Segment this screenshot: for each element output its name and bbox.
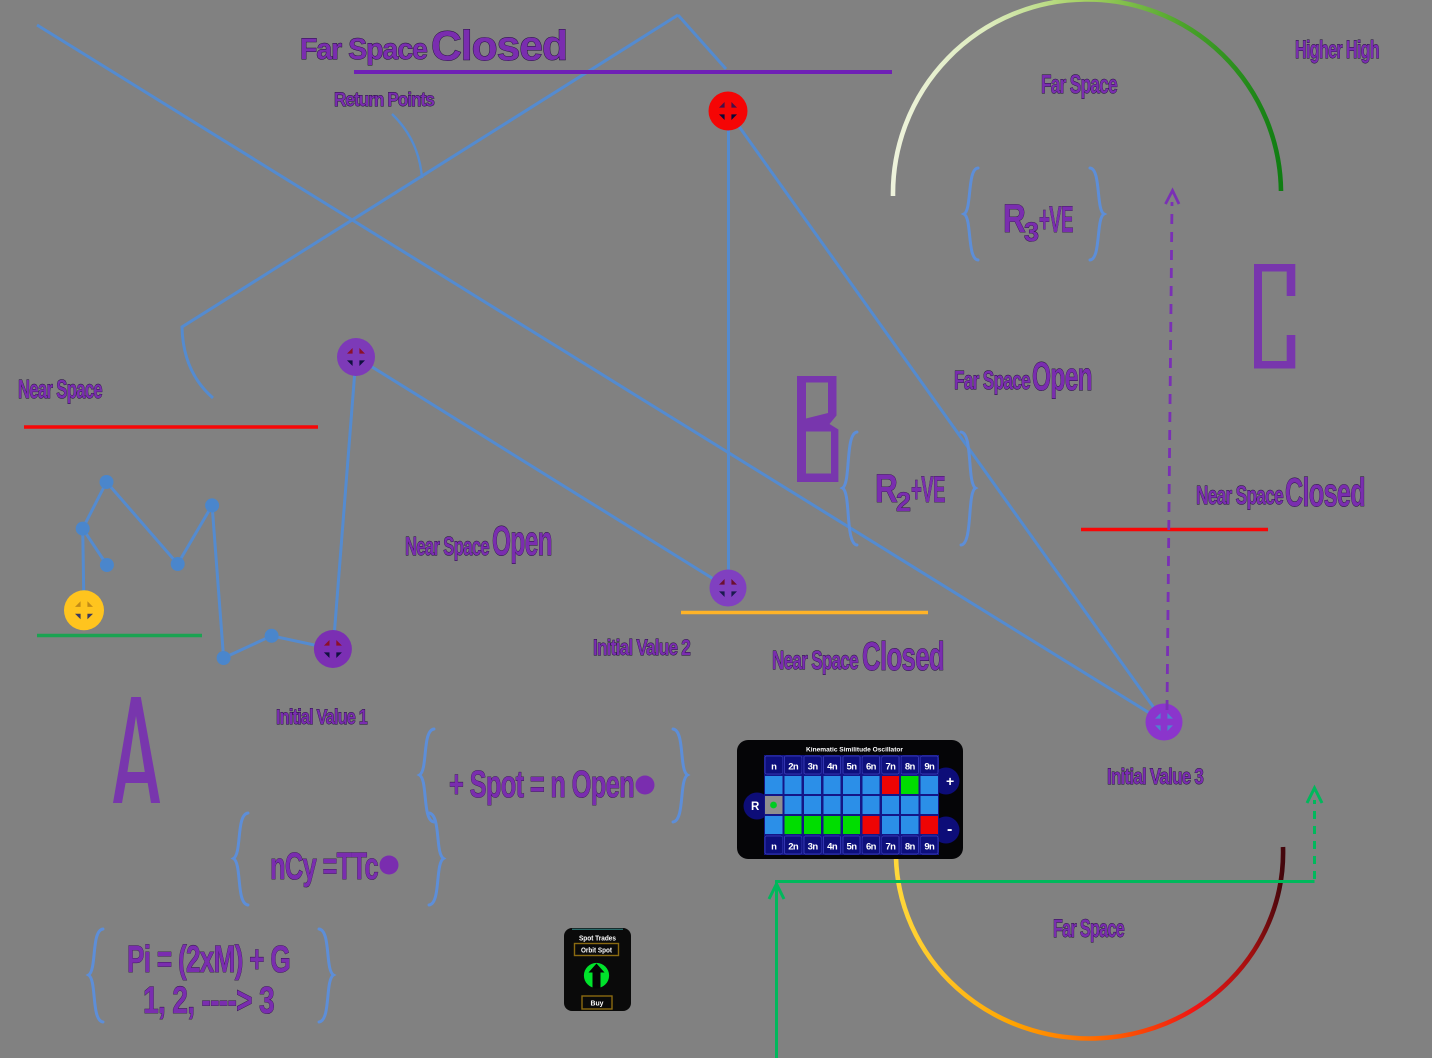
node: top return point (red)	[709, 92, 748, 131]
brace: spot formula right	[673, 729, 688, 822]
wire: return points callout	[392, 114, 422, 178]
svg-text:nCy =TTc: nCy =TTc	[270, 846, 379, 888]
svg-text:Near Space: Near Space	[772, 645, 858, 675]
svg-text:7n: 7n	[885, 842, 896, 853]
svg-text:Open: Open	[492, 517, 552, 564]
svg-text:2: 2	[896, 487, 910, 517]
wire: red node to Initial Value 3	[728, 111, 1164, 722]
svg-text:9n: 9n	[924, 762, 935, 773]
svg-text:Initial Value 1: Initial Value 1	[276, 706, 368, 729]
svg-text:Far Space: Far Space	[954, 365, 1030, 395]
svg-text:-: -	[947, 821, 952, 838]
svg-text:n: n	[771, 842, 777, 853]
svg-text:1, 2, ----> 3: 1, 2, ----> 3	[143, 980, 274, 1022]
svg-text:Pi = (2xM) + G: Pi = (2xM) + G	[127, 939, 290, 981]
node: Initial Value 3	[1146, 704, 1183, 741]
brace: nCy formula left	[234, 813, 249, 905]
svg-text:Closed: Closed	[1285, 471, 1365, 515]
node: zigzag dot 1	[100, 475, 114, 489]
svg-text:Near Space: Near Space	[1196, 480, 1283, 510]
node: purple node 1	[337, 338, 375, 376]
svg-text:2n: 2n	[788, 842, 799, 853]
rule: near space support (red, right)	[1081, 528, 1268, 531]
svg-text:6n: 6n	[866, 842, 877, 853]
svg-text:3n: 3n	[808, 762, 819, 773]
svg-text:Buy: Buy	[591, 999, 605, 1008]
label: big letter A	[113, 697, 160, 803]
svg-text:R: R	[751, 801, 760, 813]
rule: purple heading underline	[354, 70, 892, 74]
node: spot formula dot	[636, 776, 655, 795]
brace: R3 left	[964, 168, 978, 260]
svg-text:3: 3	[1024, 217, 1039, 247]
svg-text:+ Spot = n Open: + Spot = n Open	[449, 764, 634, 806]
svg-text:+VE: +VE	[911, 469, 945, 510]
axis: green solid L (vertical + horizontal)	[777, 882, 1315, 1058]
svg-text:5n: 5n	[847, 842, 858, 853]
wire: zigzag spur to endpoint node	[83, 529, 107, 565]
wire: red node down to Initial Value 2	[727, 111, 730, 588]
arrow: purple dashed up arrow	[1166, 191, 1180, 711]
wire: node1 to Initial Value 2	[356, 357, 728, 588]
arrow: green arrowhead on left axis	[769, 884, 784, 899]
wire: peak line right branch	[678, 15, 726, 69]
svg-text:Higher High: Higher High	[1295, 36, 1379, 64]
node: zigzag dot 3	[100, 558, 114, 572]
svg-text:3n: 3n	[808, 842, 819, 853]
node: Initial Value 1	[314, 630, 352, 668]
panel: Kinematic Similitude Oscillator	[737, 740, 963, 859]
arc: far space top (green gradient)	[893, 0, 1281, 196]
brace: R2 left	[843, 432, 858, 545]
svg-text:Closed: Closed	[431, 22, 567, 69]
wire: long diagonal A from top-left to Initial Value 3	[37, 25, 1164, 722]
svg-text:R: R	[875, 467, 898, 511]
svg-text:+VE: +VE	[1039, 199, 1073, 240]
node: zigzag dot 7	[265, 629, 279, 643]
svg-text:Kinematic Similitude Oscillato: Kinematic Similitude Oscillator	[806, 747, 903, 754]
svg-text:9n: 9n	[924, 842, 935, 853]
svg-text:Near Space: Near Space	[18, 374, 102, 404]
svg-text:5n: 5n	[847, 762, 858, 773]
arrow: green dashed riser with arrowhead	[1307, 788, 1322, 879]
svg-text:n: n	[771, 762, 777, 773]
svg-text:R: R	[1003, 197, 1026, 241]
svg-text:6n: 6n	[866, 762, 877, 773]
svg-text:Far Space: Far Space	[1041, 69, 1117, 99]
svg-text:Orbit Spot: Orbit Spot	[581, 946, 612, 955]
rule: gold support under Initial Value 2	[681, 611, 928, 615]
brace: nCy formula right	[429, 813, 444, 905]
node: yellow node	[64, 590, 104, 630]
node: zigzag dot 6	[217, 651, 231, 665]
label: big letter B	[797, 376, 838, 482]
svg-text:Spot Trades: Spot Trades	[579, 934, 616, 943]
brace: pi formula left	[89, 929, 104, 1022]
svg-text:4n: 4n	[827, 762, 838, 773]
brace: spot formula left	[420, 729, 435, 822]
svg-text:Initial Value 2: Initial Value 2	[593, 635, 691, 660]
svg-text:Open: Open	[1032, 355, 1092, 399]
rule: near space support (red, left)	[24, 425, 318, 428]
wire: node1 to Initial Value 1	[333, 357, 356, 650]
node: zigzag dot 5	[205, 498, 219, 512]
svg-text:7n: 7n	[885, 762, 896, 773]
brace: pi formula right	[319, 929, 334, 1022]
node: nCy formula dot	[380, 856, 399, 875]
node: zigzag dot 2	[76, 522, 90, 536]
svg-text:4n: 4n	[827, 842, 838, 853]
panel: Spot Trades widget	[564, 928, 631, 1011]
oscillator grid cells	[765, 756, 938, 854]
brace: R2 right	[961, 432, 976, 545]
arc: far space bottom (yellow-red gradient)	[896, 847, 1283, 1038]
svg-text:8n: 8n	[905, 762, 916, 773]
brace: R3 right	[1090, 168, 1104, 260]
svg-text:Far Space: Far Space	[1053, 915, 1125, 943]
node: Initial Value 2	[710, 570, 747, 607]
svg-text:Return Points: Return Points	[334, 90, 434, 111]
label: big letter C	[1254, 264, 1295, 369]
svg-text:Far Space: Far Space	[300, 33, 427, 66]
oscillator reference dot	[770, 802, 777, 809]
wire: peak line left branch with hook	[182, 15, 678, 398]
oscillator header/footer labels	[771, 762, 935, 853]
svg-text:2n: 2n	[788, 762, 799, 773]
svg-text:8n: 8n	[905, 842, 916, 853]
svg-text:Near Space: Near Space	[405, 531, 489, 561]
svg-text:+: +	[946, 773, 954, 789]
svg-text:Closed: Closed	[862, 635, 944, 679]
rule: green support under yellow node	[37, 634, 202, 638]
wire: zigzag price polyline	[83, 482, 333, 658]
svg-text:Initial Value 3: Initial Value 3	[1107, 764, 1204, 789]
node: zigzag dot 4	[171, 557, 185, 571]
